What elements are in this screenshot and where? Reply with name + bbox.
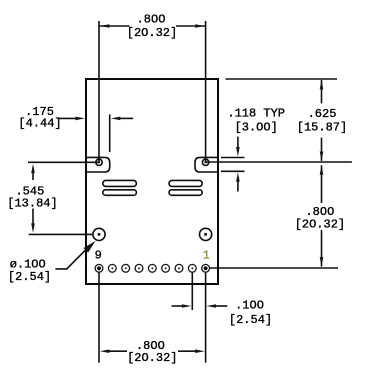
dim dia .100 leader arrow xyxy=(84,241,96,253)
dim .118 arrow up xyxy=(237,180,239,192)
svg-text:[2O.32]: [2O.32] xyxy=(127,26,177,40)
dim right .800 arrow up xyxy=(320,165,324,175)
connector body outline xyxy=(86,79,218,284)
svg-text:.1OO: .1OO xyxy=(235,299,264,313)
reference line from screw hole right xyxy=(206,161,352,163)
pad pin1 xyxy=(202,264,210,272)
svg-text:.118 TYP: .118 TYP xyxy=(227,107,285,121)
dim .625 arrow down xyxy=(320,151,324,161)
svg-text:[3.OO]: [3.OO] xyxy=(235,120,278,134)
dim .545 reference line to screw hole xyxy=(28,161,99,163)
pad pin8 xyxy=(108,264,116,272)
vent slot right lower xyxy=(169,190,202,196)
dim .545 arrow down xyxy=(31,223,35,233)
dim .175 extension line xyxy=(109,114,111,152)
dim .175 arrow left xyxy=(76,117,86,121)
svg-text:.625: .625 xyxy=(308,107,337,121)
screw hole right xyxy=(202,159,208,165)
vent slot left lower xyxy=(103,190,137,196)
pad pin9 xyxy=(95,264,103,272)
dim dia .100 leader line xyxy=(55,246,90,269)
dim .175 arrow line right xyxy=(119,117,133,119)
svg-text:[2O.32]: [2O.32] xyxy=(127,351,177,365)
svg-text:.8OO: .8OO xyxy=(137,13,166,27)
dim top .800 arrow right xyxy=(195,24,205,28)
dim top .800 dimension line xyxy=(99,25,130,27)
svg-text:.8OO: .8OO xyxy=(305,205,334,219)
mounting tab right xyxy=(195,157,218,172)
dim .545 dimension line xyxy=(32,171,34,180)
boardlock hole left xyxy=(93,228,105,240)
svg-text:[2.54]: [2.54] xyxy=(8,270,51,284)
dim right .800 reference line from pin1 xyxy=(210,267,339,269)
dim .175 arrow line left xyxy=(58,117,78,119)
dim bottom .800 arrow left xyxy=(100,349,110,353)
dim top .800 extension line left xyxy=(98,21,100,162)
svg-text:1: 1 xyxy=(203,248,210,262)
dim right .800 arrow down xyxy=(320,257,324,267)
dim bottom .800 dimension line xyxy=(108,350,127,352)
dim bottom .800 extension line pin9 xyxy=(98,273,100,363)
dim .625 arrow up xyxy=(320,80,324,90)
svg-text:[4.44]: [4.44] xyxy=(18,117,61,131)
svg-text:[2O.32]: [2O.32] xyxy=(295,218,345,232)
pad pin7 xyxy=(122,264,130,272)
dim .118 extension line tab bottom xyxy=(221,170,245,172)
dim .100 arrow line left xyxy=(172,305,183,307)
pad pin5 xyxy=(148,264,156,272)
dim right .800 dimension line xyxy=(321,165,323,203)
screw hole left xyxy=(96,159,102,165)
dim top .800 arrow left xyxy=(100,24,110,28)
dim .175 arrow right xyxy=(111,117,121,121)
vent slot left upper xyxy=(103,180,137,186)
svg-text:[15.87]: [15.87] xyxy=(297,121,347,135)
pad pin4 xyxy=(162,264,170,272)
pad pin3 xyxy=(175,264,183,272)
dim top .800 extension line right xyxy=(205,21,207,162)
dim .100 arrow line right xyxy=(215,305,227,307)
svg-text:9: 9 xyxy=(95,248,102,262)
svg-text:[2.54]: [2.54] xyxy=(229,313,272,327)
dim bottom .800 arrow right xyxy=(195,349,205,353)
vent slot right upper xyxy=(169,180,202,186)
dim .545 reference line to boardlock xyxy=(29,233,93,235)
dim .118 extension line tab top xyxy=(221,157,245,159)
pad pin6 xyxy=(135,264,143,272)
mounting tab left xyxy=(86,157,110,172)
boardlock hole right xyxy=(200,228,212,240)
dim .625 extension line from body top xyxy=(226,78,338,80)
pad pin2 xyxy=(188,264,196,272)
dim .545 arrow up xyxy=(31,164,35,174)
dim .625 dimension line xyxy=(321,80,323,104)
dim .118 arrow down xyxy=(237,137,239,149)
dim .100 extension line pin2 xyxy=(191,273,193,311)
svg-text:[13.84]: [13.84] xyxy=(7,196,57,210)
dim .100 extension line pin1 lower xyxy=(205,273,207,363)
